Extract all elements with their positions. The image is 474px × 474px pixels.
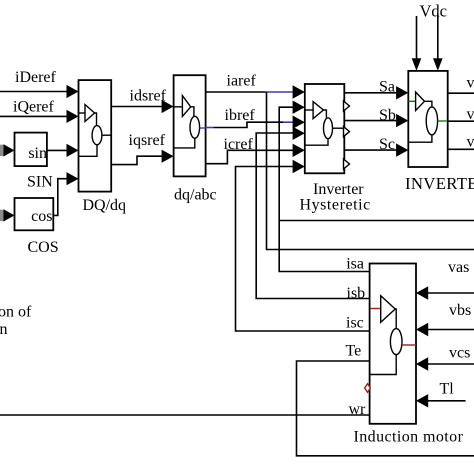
svg-text:cos: cos [31,208,52,225]
svg-text:Sa: Sa [379,79,395,96]
wire icref dq/abc to hysteretic port 5 [206,150,294,163]
svg-text:vcs: vcs [449,345,470,362]
wire Vdc left [416,16,418,60]
wire iqsref DQ/dq to dq/abc port 2 [111,156,163,164]
wire iaref branch to right edge [267,92,474,250]
wire iDeref into DQ/dq port 1 [0,91,68,93]
icon DQ/dq ellipse [92,126,102,145]
svg-text:Te: Te [346,343,362,360]
svg-text:INVERTER: INVERTER [405,174,474,193]
wire vas from right edge into motor [428,292,474,294]
red diamond unconnected port at wr [365,384,371,393]
arrowhead vas at motor [416,286,428,299]
chevron output port 3 on hysteretic right edge [344,159,350,169]
icon dq/abc [174,96,206,148]
wire Sc [344,149,397,151]
svg-text:ibref: ibref [225,107,256,124]
arrowhead iQeref at DQ/dq [67,110,79,123]
icon induction motor triangle [370,296,416,375]
arrowhead iaref at hysteretic port 1 [293,85,305,98]
block dq/abc [174,75,206,176]
svg-text:Induction motor: Induction motor [354,429,464,446]
arrowhead into cos block [4,209,15,221]
svg-text:Vdc: Vdc [420,2,448,21]
wire Vdc right [437,13,439,60]
arrowhead sin to DQ/dq port 3 [67,144,79,157]
arrowhead Sb at INVERTER [396,114,408,127]
arrowhead vbs at motor [416,323,428,336]
svg-text:Sc: Sc [379,136,395,153]
svg-text:sin: sin [28,145,47,162]
icon DQ/dq elbow [95,113,97,126]
block sin [15,133,47,167]
wire Te from motor to bottom right edge [297,361,474,456]
wire isa branch to right edge [279,220,474,222]
block Inverter Hysteretic [305,84,345,173]
svg-text:va: va [467,74,474,91]
wire isa feedback from motor to hysteretic port 2 [279,107,369,271]
svg-text:iqsref: iqsref [129,132,166,149]
svg-text:Hysteretic: Hysteretic [300,197,371,214]
svg-text:Inverter: Inverter [313,181,364,198]
block DQ/dq [79,80,112,192]
wire input stub into sin block [0,145,4,156]
svg-text:iQeref: iQeref [13,99,55,116]
svg-text:isc: isc [346,315,364,332]
svg-text:vas: vas [448,259,469,276]
wire input stub into cos block [0,210,4,221]
wire vbs from right edge into motor [428,329,474,331]
arrowhead Sa at INVERTER [396,86,408,99]
wire iQeref into DQ/dq port 2 [0,115,68,117]
block Induction motor [370,264,416,424]
wire Sb [344,120,397,122]
wire ibref blue segment [283,121,294,123]
arrowhead Vdc left down [412,58,422,71]
block INVERTER [408,71,447,167]
arrowhead Sc at INVERTER [396,143,408,156]
wire idsref DQ/dq to dq/abc port 1 [111,106,163,108]
svg-text:iDeref: iDeref [15,69,57,86]
wire iaref blue segment [266,91,295,93]
arrowhead into sin block [4,144,15,156]
svg-text:COS: COS [28,239,59,256]
wire cos output to DQ/dq port 4 [53,179,68,216]
wire vcs from right edge into motor [428,363,474,365]
arrowhead ibref at hysteretic port 3 [293,116,305,129]
icon hysteretic [305,102,345,146]
wire iaref dq/abc to hysteretic port 1 [206,91,266,93]
svg-text:vc: vc [467,134,474,151]
icon DQ/dq triangle [79,105,112,157]
svg-text:isa: isa [346,255,364,272]
svg-text:iaref: iaref [227,73,257,90]
svg-text:Sb: Sb [379,107,396,124]
wire wr from motor to left edge [0,414,370,416]
wire isb feedback from motor to hysteretic port 4 [256,133,369,299]
svg-text:Tl: Tl [440,381,455,398]
svg-text:vbs: vbs [449,302,471,319]
svg-text:n: n [0,321,8,338]
wire isc feedback from motor to hysteretic port 6 [236,167,370,332]
svg-text:dq/abc: dq/abc [174,187,217,204]
wire ibref dq/abc to hysteretic port 3 [206,127,214,129]
svg-text:isb: isb [347,285,366,302]
svg-text:vb: vb [467,106,474,123]
wire vc output [448,148,474,150]
chevron output port 1 on hysteretic right edge [344,101,350,111]
svg-text:icref: icref [224,136,254,153]
wire va output [448,92,474,94]
svg-text:DQ/dq: DQ/dq [83,197,127,214]
arrowhead Vdc right down [433,58,443,71]
arrowhead isb at hysteretic port 4 [293,127,305,140]
wire Sa [344,92,397,94]
wire Tl stub into motor [428,400,466,402]
arrowhead cos to DQ/dq port 4 [67,172,79,185]
arrowhead vcs at motor [416,357,428,370]
arrowhead Tl at motor [416,394,428,407]
svg-text:idsref: idsref [130,88,167,105]
arrowhead idsref at dq/abc [162,100,174,113]
svg-text:SIN: SIN [27,173,53,190]
wire vb output [448,120,474,122]
arrowhead isc at hysteretic port 6 [293,160,305,173]
svg-text:on of: on of [0,303,32,320]
block cos [15,198,54,230]
arrowhead iDeref at DQ/dq [67,85,79,98]
chevron output port 2 on hysteretic right edge [344,127,350,137]
icon INVERTER [408,92,446,142]
arrowhead isa at hysteretic port 2 [293,101,305,114]
wire sin output to DQ/dq port 3 [47,149,68,151]
arrowhead iqsref at dq/abc [162,150,174,163]
arrowhead icref at hysteretic port 5 [293,144,305,157]
